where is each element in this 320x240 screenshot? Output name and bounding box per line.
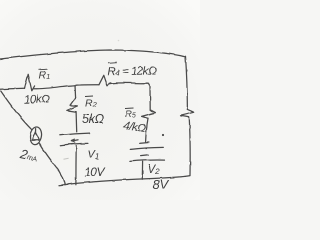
label R5 [125, 108, 136, 120]
wire: bottom horizontal [59, 176, 190, 186]
svg-text:R2: R2 [85, 97, 98, 109]
label R4 = 12k [107, 62, 157, 78]
wire: node to R2 vertical [74, 85, 77, 97]
resistor R4 spike [99, 75, 110, 86]
wire: current source to bottom-left node [40, 144, 65, 185]
resistor squiggle on right edge wire [181, 109, 195, 117]
wire: R2 to V1 top [75, 112, 78, 132]
wire: down to R5 [149, 86, 151, 110]
svg-text:10kΩ: 10kΩ [24, 93, 51, 106]
label R1 [39, 69, 51, 81]
current source I1 circle [29, 126, 43, 145]
paper background [0, 0, 200, 200]
wire: right edge vertical (lower) [188, 117, 191, 175]
svg-text:R4 = 12kΩ: R4 = 12kΩ [107, 65, 157, 78]
svg-text:5kΩ: 5kΩ [82, 112, 105, 126]
battery V2 minus sign [141, 154, 149, 157]
wire: R1 to R4 along top (node with R2) [34, 85, 100, 89]
wire: R1 left lead from left edge [0, 88, 25, 89]
wire: V1 bottom stub to bottom wire [75, 146, 77, 185]
wire: top outer curve from left edge to top-right corner [0, 50, 186, 59]
wire: right edge vertical (upper) [186, 57, 188, 110]
svg-text:10V: 10V [84, 165, 106, 179]
battery V2 short top plate [139, 142, 149, 145]
svg-text:R1: R1 [39, 70, 51, 82]
wire: R5 to V2 top [146, 118, 148, 142]
stray pen dot [162, 134, 164, 136]
resistor R2 squiggle [67, 98, 78, 112]
battery V1 long plate (upper) [60, 133, 90, 135]
wire: V2 bottom stub [141, 162, 143, 180]
battery V2 long plate (lower) [129, 160, 164, 161]
faint erased dash [64, 158, 69, 159]
battery V2 long plate (upper) [131, 147, 164, 149]
wire: R4 to top of R5 branch with corner [110, 83, 150, 86]
current source arrow [35, 129, 37, 134]
wire: diagonal from left node to current source [1, 91, 32, 130]
resistor R5 squiggle [142, 110, 156, 119]
label R2 [85, 96, 98, 109]
resistor R1 spike [25, 74, 35, 91]
battery V1 minus tick [71, 139, 78, 142]
svg-text:8V: 8V [153, 177, 170, 192]
battery V1 long plate (lower) [60, 143, 88, 145]
paper speck [118, 40, 120, 42]
